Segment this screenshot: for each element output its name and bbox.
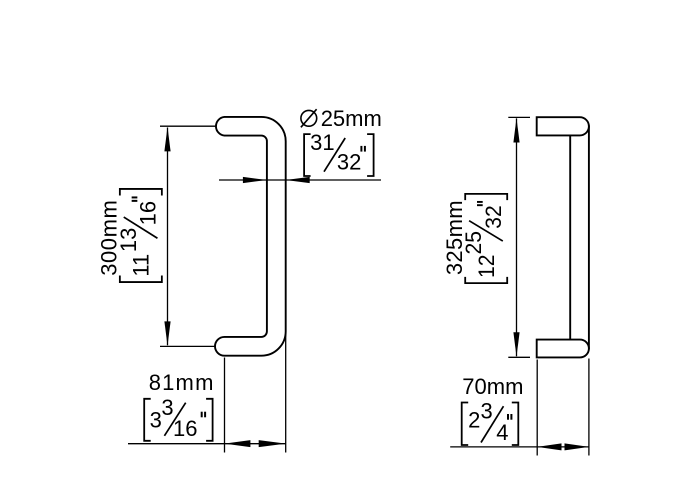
svg-text:25mm: 25mm xyxy=(321,106,382,131)
svg-text:81mm: 81mm xyxy=(149,370,215,395)
svg-text:3: 3 xyxy=(150,407,162,432)
svg-text:4: 4 xyxy=(496,420,508,445)
svg-text:31: 31 xyxy=(310,130,334,155)
svg-text:12: 12 xyxy=(473,254,499,277)
svg-text:16: 16 xyxy=(173,416,197,441)
svg-text:25: 25 xyxy=(461,231,487,254)
svg-text:70mm: 70mm xyxy=(462,374,523,399)
svg-text:11: 11 xyxy=(128,254,153,277)
svg-text:2: 2 xyxy=(468,408,480,433)
svg-text:13: 13 xyxy=(116,228,141,252)
svg-text:32: 32 xyxy=(480,205,506,228)
svg-text:3: 3 xyxy=(161,395,173,420)
svg-text:3: 3 xyxy=(481,399,493,424)
svg-text:32: 32 xyxy=(337,150,361,175)
svg-text:16: 16 xyxy=(135,201,160,225)
